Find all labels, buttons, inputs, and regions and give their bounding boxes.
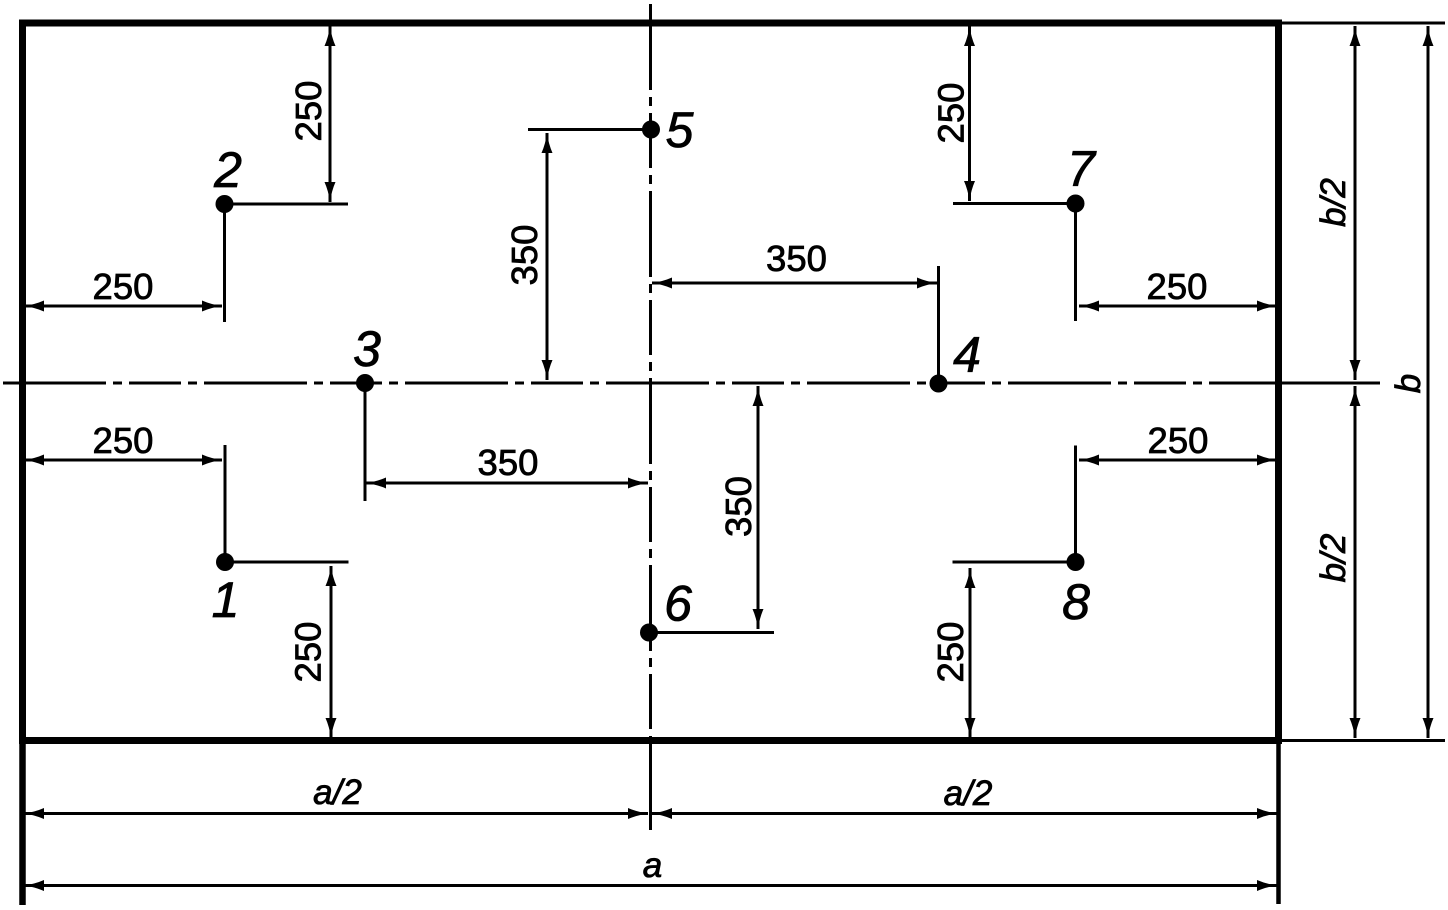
dimension a/2 right bbox=[652, 808, 1277, 819]
svg-text:250: 250 bbox=[93, 266, 154, 307]
svg-text:b/2: b/2 bbox=[1314, 534, 1353, 583]
dimension 250 vertical bottom-right bbox=[965, 568, 976, 738]
dimension 250 horizontal top-right bbox=[1079, 301, 1277, 312]
point 8 dot bbox=[1067, 553, 1085, 571]
horizontal centerline extension right bbox=[1282, 382, 1380, 385]
svg-text:250: 250 bbox=[288, 81, 329, 142]
svg-text:6: 6 bbox=[664, 576, 692, 632]
svg-text:250: 250 bbox=[1147, 266, 1208, 307]
extension line bottom right of plate bbox=[1282, 739, 1445, 742]
svg-text:a: a bbox=[643, 846, 662, 885]
horizontal centerline bbox=[3, 382, 1282, 385]
dimension 350 horizontal at point 4 bbox=[652, 278, 937, 289]
dimension 350 horizontal at point 3 bbox=[366, 478, 648, 489]
svg-text:3: 3 bbox=[353, 321, 381, 377]
point 5 leader line bbox=[528, 128, 651, 131]
svg-text:250: 250 bbox=[93, 420, 154, 461]
point 1 dot bbox=[216, 553, 234, 571]
dimension 350 vertical at point 6 bbox=[753, 386, 764, 629]
extension line top right bbox=[1282, 22, 1445, 25]
dimension a/2 left bbox=[24, 808, 648, 819]
svg-text:4: 4 bbox=[953, 327, 981, 383]
dimension 250 horizontal bottom-right bbox=[1079, 455, 1277, 466]
point 6 leader line bbox=[649, 631, 774, 634]
svg-text:250: 250 bbox=[1148, 420, 1209, 461]
point 4 leader line bbox=[937, 266, 940, 384]
svg-text:350: 350 bbox=[718, 476, 759, 537]
svg-text:1: 1 bbox=[212, 572, 240, 628]
dimension 250 vertical top-left bbox=[325, 26, 336, 202]
svg-text:b/2: b/2 bbox=[1314, 178, 1353, 227]
svg-text:350: 350 bbox=[504, 225, 545, 286]
dimension b bbox=[1423, 26, 1434, 738]
point 2 dot bbox=[216, 195, 234, 213]
point 4 dot bbox=[930, 375, 948, 393]
extension line below left border bbox=[19, 744, 26, 905]
svg-text:250: 250 bbox=[288, 622, 329, 683]
svg-text:250: 250 bbox=[930, 83, 971, 144]
svg-text:a/2: a/2 bbox=[313, 773, 362, 812]
dimension 250 horizontal bottom-left bbox=[24, 455, 222, 466]
svg-text:b: b bbox=[1389, 374, 1428, 393]
svg-text:5: 5 bbox=[666, 102, 694, 158]
dimension b/2 upper bbox=[1350, 26, 1361, 380]
svg-text:7: 7 bbox=[1067, 141, 1097, 197]
point 8 leader lines bbox=[953, 446, 1076, 563]
point 3 leader line bbox=[364, 383, 367, 501]
vertical centerline bbox=[649, 4, 652, 744]
point 7 leader lines bbox=[953, 204, 1076, 322]
dimension b/2 lower bbox=[1350, 386, 1361, 738]
dimension 250 horizontal top-left bbox=[24, 301, 222, 312]
svg-text:2: 2 bbox=[213, 142, 242, 198]
point 1 leader lines bbox=[225, 445, 349, 562]
svg-text:8: 8 bbox=[1062, 574, 1090, 630]
extension line below right border bbox=[1276, 744, 1281, 904]
dimension 250 vertical bottom-left bbox=[326, 566, 337, 738]
point 6 dot bbox=[640, 624, 658, 642]
point 7 dot bbox=[1067, 195, 1085, 213]
vertical centerline extension below plate bbox=[649, 744, 652, 830]
svg-text:250: 250 bbox=[930, 622, 971, 683]
svg-text:350: 350 bbox=[478, 442, 539, 483]
point 3 dot bbox=[356, 374, 374, 392]
plate outline bbox=[23, 23, 1279, 741]
dimension 250 vertical top-right bbox=[964, 26, 975, 201]
svg-text:350: 350 bbox=[766, 238, 827, 279]
dimension a bbox=[24, 880, 1277, 891]
dimension 350 vertical at point 5 bbox=[542, 133, 553, 380]
point 5 dot bbox=[642, 121, 660, 139]
svg-text:a/2: a/2 bbox=[944, 774, 993, 813]
point 2 leader lines bbox=[225, 204, 349, 322]
